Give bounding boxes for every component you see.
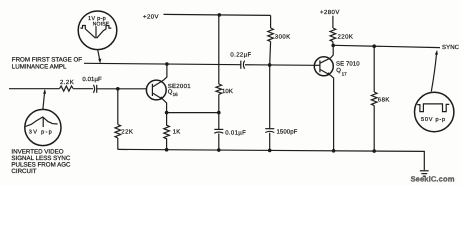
pointer from 50V scope to sync line [431,53,436,92]
resistor 1K [164,113,170,150]
wire +20V rail [164,14,271,15]
resistor 22K [115,124,121,138]
node Q17 emitter on bus [332,149,336,153]
svg-text:10K: 10K [222,88,233,95]
node bypass cap on bus [217,148,221,152]
scope waveform circle 1V p-p NOISE [78,11,117,50]
svg-text:50V p-p: 50V p-p [421,117,446,123]
wire luminance line (right of 0.22uF cap) to Q17 base [245,64,315,67]
node junction +20V rail to 10K feed [218,13,222,17]
node bypass junction [217,111,221,115]
svg-text:0.22µF: 0.22µF [230,52,251,59]
wire Q17 base lead [315,64,320,66]
wire input line from left edge [9,88,60,90]
resistor 220K [330,28,336,42]
svg-text:2.2K: 2.2K [60,79,74,86]
node 68K on bus [372,149,376,153]
wire luminance line (left of 0.22uF cap) [84,63,241,64]
svg-text:+280V: +280V [320,9,340,16]
node Q16 collector junction [165,62,169,66]
ground symbol [420,170,429,172]
pointer from 3V scope to input line [43,92,45,109]
svg-text:0.01µF: 0.01µF [82,76,102,83]
svg-text:FROM FIRST STAGE OF: FROM FIRST STAGE OF [12,56,82,63]
svg-text:1K: 1K [173,129,181,136]
wire 68K bottom to ground bus [373,106,375,152]
svg-text:17: 17 [342,71,348,76]
resistor 2.2K [60,86,74,91]
wire Q17 collector up to junction [331,45,334,58]
capacitor C 0.01uF emitter bypass [218,113,220,130]
capacitor C 1500pF [265,128,274,130]
capacitor C 0.22uF [240,61,242,69]
svg-text:SYNC: SYNC [442,44,460,51]
svg-text:CIRCUIT: CIRCUIT [11,168,36,175]
wire 220K bottom to collector node [332,42,334,46]
wire ground bus [118,149,425,170]
transistor Q16 SE2001 [146,80,166,100]
wire input cap to Q16 base [97,88,147,90]
node Q16 emitter junction [165,111,169,115]
wire 300K branch from +20V rail corner [270,15,272,28]
wire 22K top lead [117,89,119,125]
svg-text:+20V: +20V [143,13,159,20]
wire 22K bottom to ground bus corner [117,138,119,150]
svg-text:LUMINANCE AMPL: LUMINANCE AMPL [12,63,67,70]
pointer from noise scope to luminance line [98,50,100,61]
svg-text:22K: 22K [121,129,133,136]
svg-text:SE 7010: SE 7010 [336,60,360,67]
scope waveform circle 3V p-p [25,109,61,145]
wire 300K bottom to luminance-line junction [269,42,272,65]
wire 68K top lead [373,46,375,92]
resistor 300K [268,28,274,42]
wire Q16 emitter down [163,99,167,112]
wire Q17 emitter down to ground bus [330,75,333,151]
svg-text:68K: 68K [378,96,390,103]
node Q17 collector junction [331,44,335,48]
capacitor C 0.01uF input coupling [93,85,94,93]
svg-text:300K: 300K [275,33,291,40]
wire Q16 collector to luminance junction [163,64,167,80]
svg-text:0.01µF: 0.01µF [225,129,246,136]
resistor 68K [371,92,377,106]
wire SYNC output line [333,45,440,47]
svg-text:1500pF: 1500pF [277,128,298,135]
scope waveform circle 50V p-p [415,92,454,131]
wire 1500pF bottom stub to ground bus [269,133,271,151]
wire +280V drop to 220K [332,16,334,28]
resistor 10K [216,84,222,94]
node junction 68K on sync line [372,44,376,48]
svg-text:220K: 220K [338,34,354,41]
svg-text:3V p-p: 3V p-p [29,129,53,135]
wire junction down to 1500pF [269,65,271,129]
wire between 2.2K and input cap [73,88,93,90]
node 1500pF on bus [268,149,272,153]
svg-text:16: 16 [173,92,179,97]
node 1K on bus [165,148,169,152]
wire emitter node to bypass node [167,112,219,114]
wire feed from +20V rail down to 10K [218,15,220,84]
svg-text:SeekIC.com: SeekIC.com [411,175,455,184]
transistor Q17 SE7010 [314,57,333,76]
wire 10K bottom to emitter node [218,94,220,112]
node junction 300K/1500pF on luminance line [268,63,272,67]
node junction 22K on input line [116,87,120,91]
svg-text:NOISE: NOISE [93,22,110,28]
